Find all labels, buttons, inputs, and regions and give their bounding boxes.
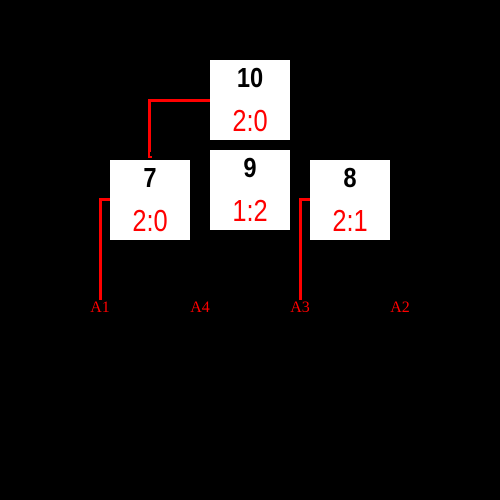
wire box7 to A1 vertical <box>99 198 102 300</box>
wire box8 to A3 vertical <box>299 198 302 300</box>
wire box10-box7 thin tail <box>148 152 150 156</box>
node A3 <box>280 300 320 316</box>
box 8 <box>310 160 390 240</box>
wire box8 stub <box>299 198 310 201</box>
wire box7 stub <box>99 198 110 201</box>
wire box10 to box7 vertical segment <box>148 99 151 152</box>
wire box10-box7 foot <box>148 156 152 159</box>
box 10 <box>210 60 290 140</box>
node A1 <box>80 300 120 316</box>
node A4 <box>180 300 220 316</box>
node A2 <box>380 300 420 316</box>
box 9 <box>210 150 290 230</box>
wire box10 horizontal segment <box>148 99 210 102</box>
box 7 <box>110 160 190 240</box>
